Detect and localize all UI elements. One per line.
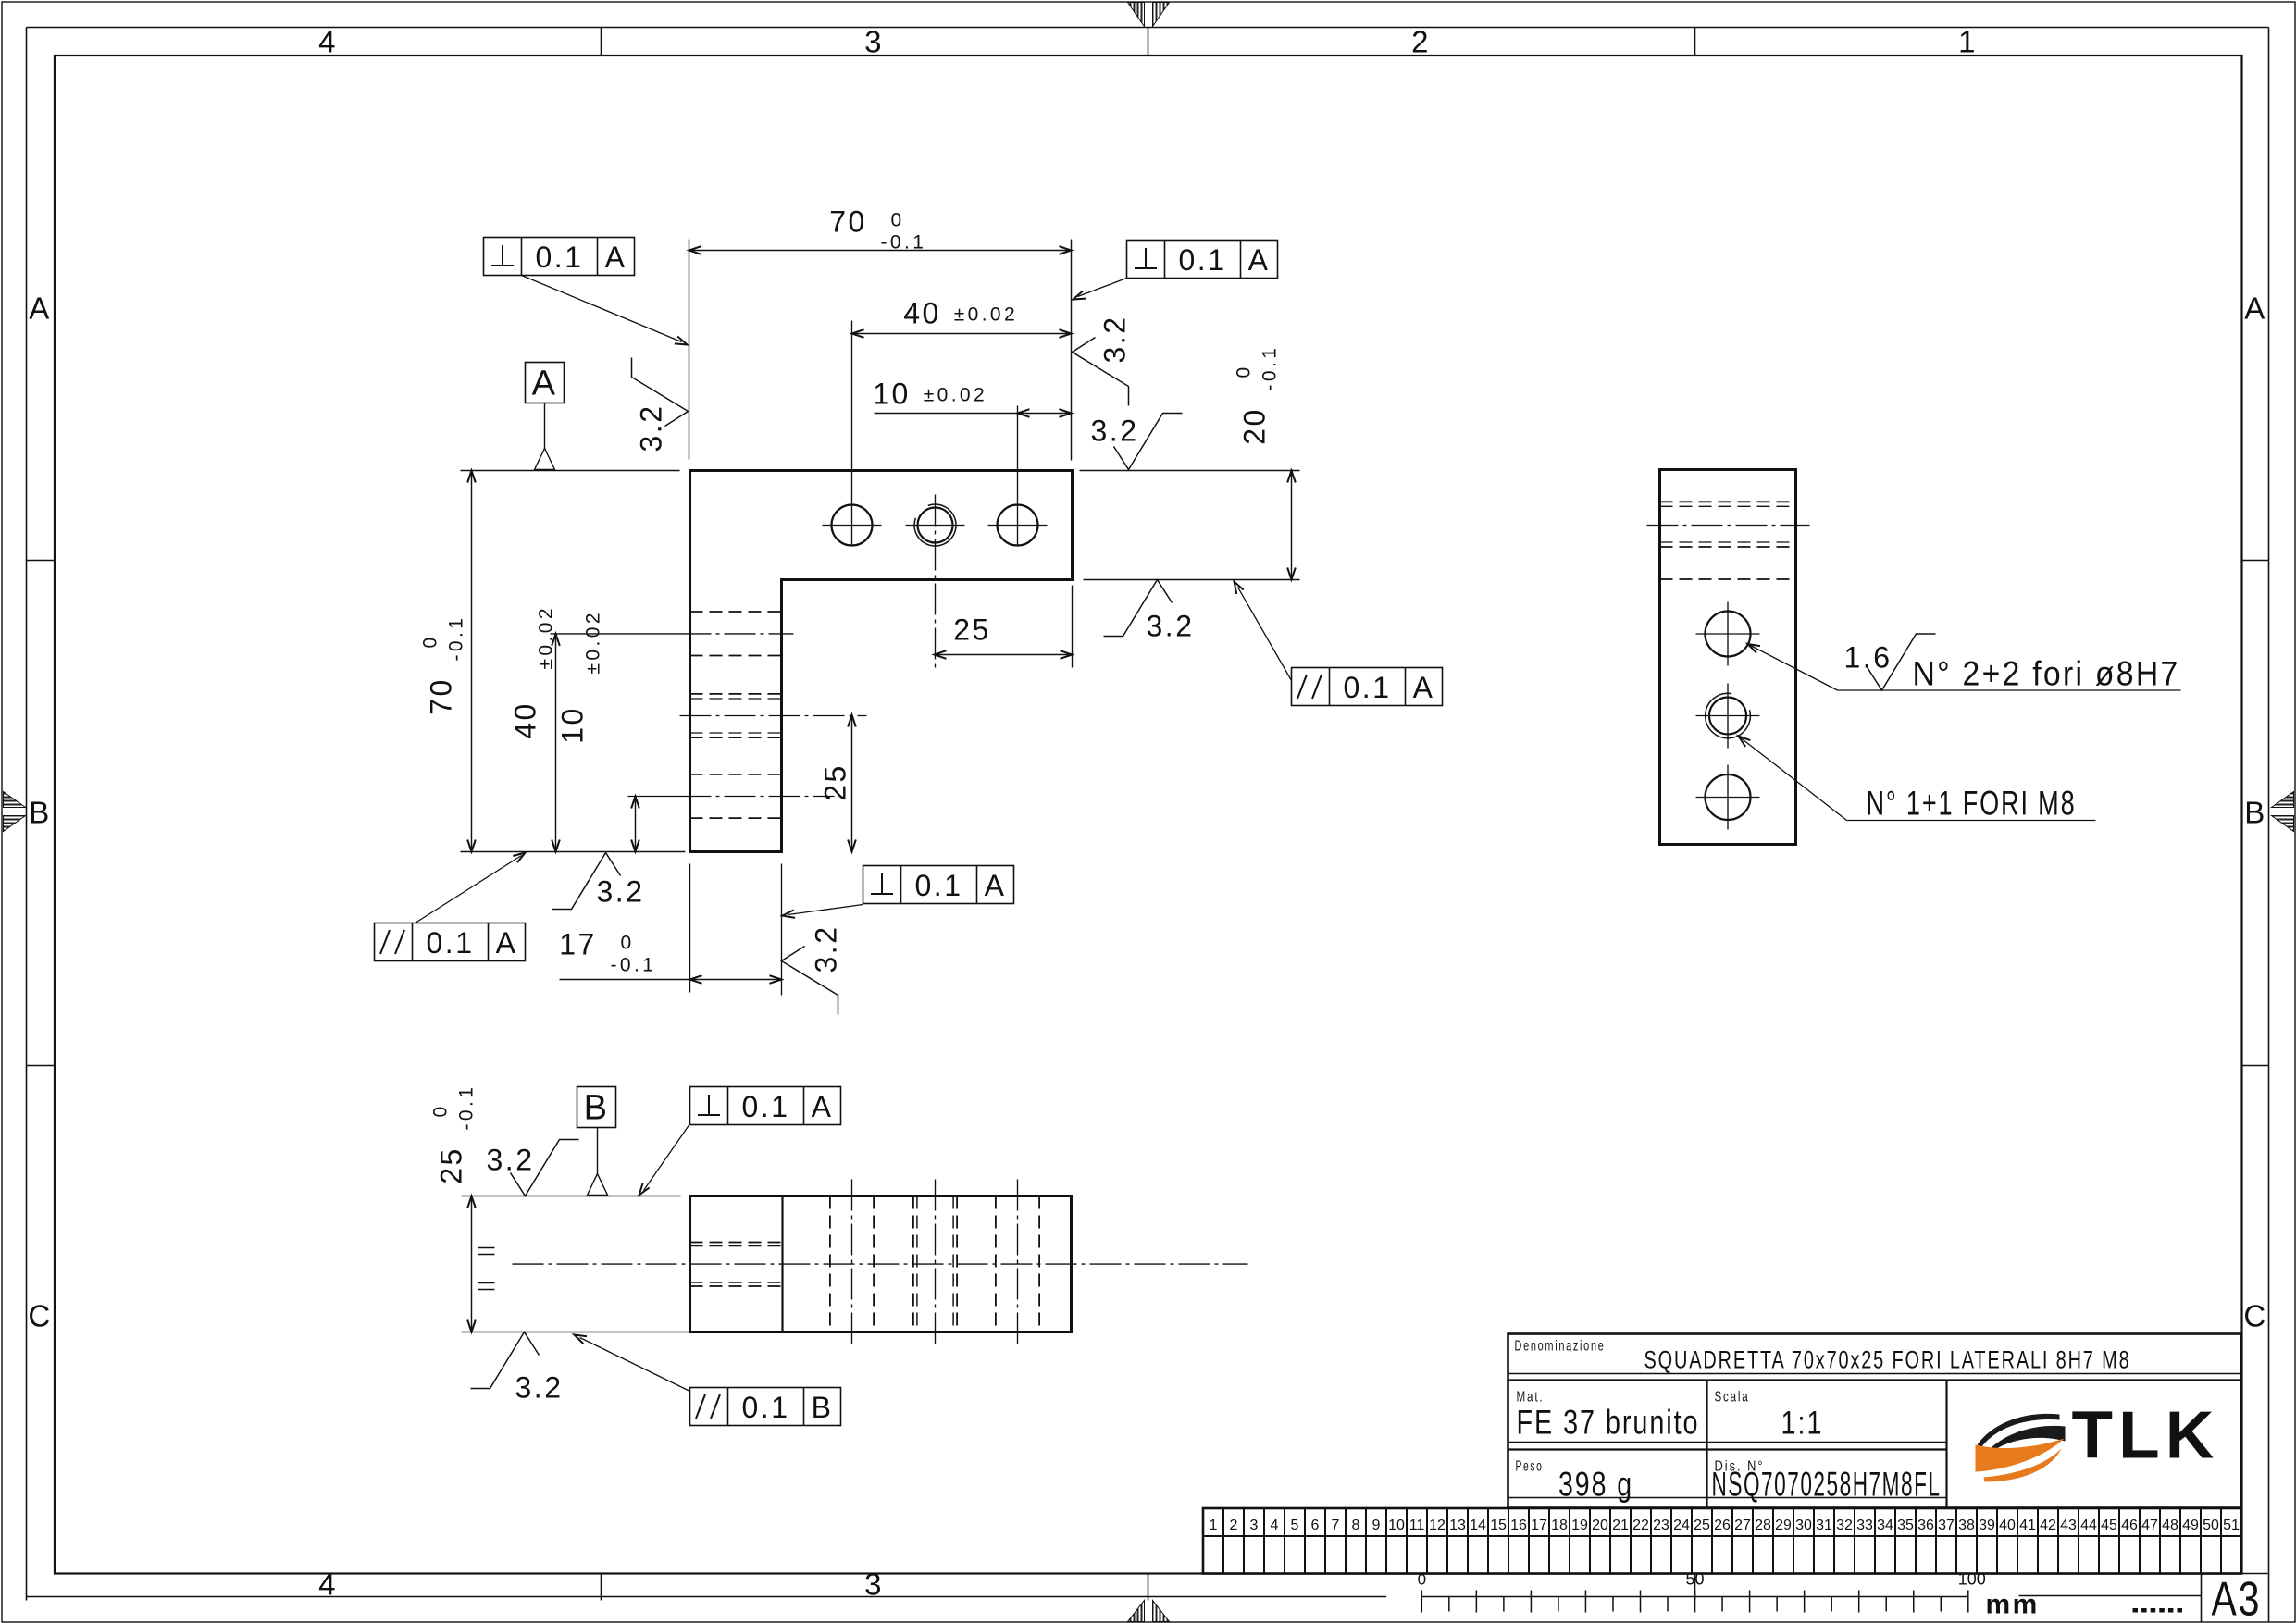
svg-text:A3: A3 <box>2212 1573 2262 1623</box>
svg-text:13: 13 <box>1449 1518 1466 1533</box>
svg-text:3.2: 3.2 <box>597 875 645 909</box>
fcf perpendicularity 0.1 A top-right <box>1074 241 1278 300</box>
svg-text:3: 3 <box>1250 1518 1259 1533</box>
svg-text:40: 40 <box>903 297 941 330</box>
surface 3.2 bottom view top <box>487 1140 579 1196</box>
svg-text:3: 3 <box>864 25 884 59</box>
svg-text:0: 0 <box>430 1103 452 1117</box>
centring mark left <box>4 792 26 832</box>
dim 40 vertical <box>509 605 560 851</box>
svg-text:19: 19 <box>1571 1518 1588 1533</box>
svg-text:0.1: 0.1 <box>1179 243 1227 277</box>
svg-text:0.1: 0.1 <box>915 869 963 902</box>
title block outer <box>1508 1334 2241 1508</box>
svg-text:±0.02: ±0.02 <box>954 304 1018 326</box>
svg-text:0: 0 <box>420 634 441 648</box>
svg-text:A: A <box>605 241 627 274</box>
svg-text:45: 45 <box>2101 1518 2117 1533</box>
ruler <box>1418 1570 1986 1613</box>
svg-text:25: 25 <box>953 613 991 647</box>
svg-text:2: 2 <box>1411 25 1431 59</box>
centre line side-hole A <box>551 633 794 635</box>
svg-text:TLK: TLK <box>2072 1399 2220 1473</box>
svg-text:0.1: 0.1 <box>536 241 584 274</box>
svg-text:25: 25 <box>435 1146 468 1184</box>
bottom view step edge <box>781 1196 783 1332</box>
fcf perpendicularity 0.1 A top-left <box>484 238 688 345</box>
svg-text:21: 21 <box>1612 1518 1629 1533</box>
svg-text:24: 24 <box>1673 1518 1690 1533</box>
svg-text:20: 20 <box>1592 1518 1608 1533</box>
hidden lines side-hole B (M8) in leg <box>690 694 782 737</box>
svg-text:A: A <box>496 926 518 960</box>
svg-text:32: 32 <box>1836 1518 1853 1533</box>
svg-text:22: 22 <box>1632 1518 1649 1533</box>
svg-text:1: 1 <box>1958 25 1978 59</box>
svg-text:20: 20 <box>1238 407 1272 445</box>
centring mark top <box>1128 3 1170 27</box>
datum A flag <box>526 363 565 470</box>
svg-text:-0.1: -0.1 <box>611 955 657 976</box>
dim 70 vertical left <box>420 471 686 852</box>
svg-text:15: 15 <box>1490 1518 1507 1533</box>
dim 70 horizontal top <box>689 205 1072 461</box>
surface 3.2 on right ext line <box>1073 316 1132 406</box>
svg-text:5: 5 <box>1291 1518 1299 1533</box>
zone separators top <box>602 28 1695 56</box>
svg-text:A: A <box>985 869 1007 902</box>
surface 3.2 under bottom ext <box>552 853 645 910</box>
svg-text:17: 17 <box>1531 1518 1547 1533</box>
svg-text:3.2: 3.2 <box>810 925 843 973</box>
svg-text:0.1: 0.1 <box>742 1391 790 1424</box>
fcf perpendicularity 0.1 A bottom <box>783 866 1014 918</box>
fcf perpendicularity 0.1 A bottom view <box>639 1087 841 1196</box>
centring mark bottom <box>1128 1601 1170 1622</box>
dots <box>2133 1608 2183 1613</box>
svg-text:49: 49 <box>2182 1518 2199 1533</box>
svg-text:10: 10 <box>873 378 911 411</box>
svg-text:23: 23 <box>1653 1518 1669 1533</box>
svg-text:N° 1+1 FORI M8: N° 1+1 FORI M8 <box>1867 785 2077 823</box>
dim 10 horizontal <box>873 378 1071 547</box>
svg-text:4: 4 <box>318 25 338 59</box>
svg-text:3.2: 3.2 <box>1147 610 1195 643</box>
surface 3.2 on 17-dim ext line <box>782 925 843 1015</box>
svg-text:A: A <box>532 365 558 403</box>
svg-text:0.1: 0.1 <box>1344 671 1392 704</box>
svg-text:34: 34 <box>1877 1518 1893 1533</box>
leader N 2+2 fori <box>1748 644 2181 693</box>
svg-text:7: 7 <box>1332 1518 1340 1533</box>
svg-text:1.6: 1.6 <box>1844 641 1893 675</box>
svg-text:14: 14 <box>1470 1518 1486 1533</box>
svg-text:SQUADRETTA 70x70x25 FORI LATER: SQUADRETTA 70x70x25 FORI LATERALI 8H7 M8 <box>1644 1346 2131 1374</box>
svg-text:0: 0 <box>891 210 905 231</box>
svg-text:42: 42 <box>2040 1518 2056 1533</box>
svg-text:Denominazione: Denominazione <box>1515 1339 1606 1355</box>
number strip <box>1203 1508 2241 1574</box>
svg-text:6: 6 <box>1311 1518 1320 1533</box>
svg-text:16: 16 <box>1510 1518 1527 1533</box>
side hole 3 <box>1696 765 1760 830</box>
svg-text:12: 12 <box>1429 1518 1446 1533</box>
svg-text:25: 25 <box>1694 1518 1710 1533</box>
svg-text:0: 0 <box>1418 1571 1426 1589</box>
svg-text:B: B <box>2244 796 2267 830</box>
svg-text:-0.1: -0.1 <box>446 615 467 662</box>
hole H2 front (M8) <box>906 504 965 546</box>
svg-text:48: 48 <box>2162 1518 2178 1533</box>
svg-text:3.2: 3.2 <box>635 404 668 452</box>
svg-text:46: 46 <box>2121 1518 2138 1533</box>
centre line side-hole C <box>628 796 835 798</box>
fcf parallelism 0.1 A mid-right <box>1235 582 1443 706</box>
TLK logo <box>1976 1399 2220 1482</box>
svg-text:30: 30 <box>1795 1518 1812 1533</box>
svg-text:8: 8 <box>1352 1518 1360 1533</box>
bottom hidden hole H2 <box>913 1196 957 1332</box>
svg-text:44: 44 <box>2080 1518 2097 1533</box>
svg-text:38: 38 <box>1958 1518 1975 1533</box>
svg-text:B: B <box>812 1391 834 1424</box>
surface 3.2 bottom view bottom <box>471 1332 564 1405</box>
zone numbers top <box>318 25 1978 59</box>
svg-text:3: 3 <box>864 1567 884 1602</box>
bottom long centre line <box>513 1263 1248 1265</box>
side hidden step edge <box>1660 578 1796 580</box>
hidden lines side-hole C in leg <box>690 774 782 818</box>
svg-text:50: 50 <box>2203 1518 2219 1533</box>
side centre line top holes <box>1647 525 1810 527</box>
svg-text:-0.1: -0.1 <box>881 232 927 254</box>
svg-text:10: 10 <box>1388 1518 1405 1533</box>
svg-text:100: 100 <box>1958 1570 1986 1589</box>
side hidden lines top holes <box>1660 502 1796 547</box>
dim 25 under top arm <box>935 495 1073 668</box>
svg-text:31: 31 <box>1816 1518 1832 1533</box>
dim 10 vertical <box>556 610 639 851</box>
svg-text:0.1: 0.1 <box>427 926 475 960</box>
svg-text:C: C <box>2243 1299 2267 1333</box>
svg-text:27: 27 <box>1734 1518 1751 1533</box>
zone letters right <box>2243 291 2267 1333</box>
bottom hidden hole H1 <box>830 1196 874 1332</box>
dim 17 bottom <box>559 864 781 996</box>
leader N 1+1 FORI M8 <box>1739 737 2096 823</box>
bottom hidden side holes <box>690 1243 783 1287</box>
side hole 1 <box>1696 602 1760 666</box>
fcf parallelism 0.1 A bottom-left <box>375 853 526 961</box>
svg-text:4: 4 <box>318 1567 338 1602</box>
svg-text:A: A <box>1413 671 1435 704</box>
svg-text:10: 10 <box>556 706 590 744</box>
svg-text:35: 35 <box>1897 1518 1914 1533</box>
zone separators right <box>2242 561 2269 1066</box>
svg-text:±0.02: ±0.02 <box>583 610 604 674</box>
hole H1 front <box>823 505 882 546</box>
svg-text:Scala: Scala <box>1715 1390 1750 1406</box>
symmetry marks <box>478 1248 495 1290</box>
svg-text:41: 41 <box>2019 1518 2036 1533</box>
zone letters left <box>28 291 52 1333</box>
svg-text:43: 43 <box>2060 1518 2077 1533</box>
svg-text:NSQ7070258H7M8FL: NSQ7070258H7M8FL <box>1712 1466 1942 1504</box>
svg-text:36: 36 <box>1917 1518 1934 1533</box>
hidden lines side-hole A in leg <box>690 612 782 656</box>
svg-text:-0.1: -0.1 <box>1260 345 1281 391</box>
svg-text:33: 33 <box>1856 1518 1873 1533</box>
svg-text:39: 39 <box>1979 1518 1995 1533</box>
svg-text:25: 25 <box>819 763 852 801</box>
svg-text:28: 28 <box>1755 1518 1771 1533</box>
dim 25 vertical in view <box>819 715 856 852</box>
svg-text:B: B <box>584 1089 610 1128</box>
svg-text:70: 70 <box>829 205 867 239</box>
A3 corner box <box>2202 1574 2268 1622</box>
svg-text:26: 26 <box>1714 1518 1731 1533</box>
svg-text:Peso: Peso <box>1516 1459 1544 1475</box>
surface 3.2 on left ext line <box>632 358 689 452</box>
svg-text:37: 37 <box>1938 1518 1955 1533</box>
svg-text:0: 0 <box>1234 364 1255 378</box>
svg-text:3.2: 3.2 <box>1091 415 1139 448</box>
surface 3.2 on top-right ext <box>1091 414 1183 470</box>
bottom view outline <box>690 1196 1072 1332</box>
centring mark right <box>2272 792 2294 832</box>
title block texts <box>1515 1339 2131 1504</box>
centre line side-hole B <box>680 715 867 717</box>
svg-text:2: 2 <box>1230 1518 1238 1533</box>
svg-text:50: 50 <box>1686 1570 1705 1589</box>
svg-text:mm: mm <box>1986 1590 2040 1620</box>
svg-text:1:1: 1:1 <box>1781 1406 1824 1442</box>
svg-text:398 g: 398 g <box>1558 1466 1633 1504</box>
svg-text:47: 47 <box>2141 1518 2158 1533</box>
svg-text:N° 2+2 fori ø8H7: N° 2+2 fori ø8H7 <box>1913 655 2180 693</box>
svg-text:1: 1 <box>1210 1518 1218 1533</box>
svg-text:40: 40 <box>1999 1518 2016 1533</box>
svg-text:3.2: 3.2 <box>487 1144 535 1177</box>
surface 3.2 under step ext <box>1104 580 1195 643</box>
svg-text:0.1: 0.1 <box>742 1090 790 1123</box>
bottom centre lines vertical <box>852 1180 1018 1349</box>
front view outline <box>690 471 1073 852</box>
svg-text:A: A <box>29 291 52 326</box>
svg-text:FE 37 brunito: FE 37 brunito <box>1517 1404 1700 1442</box>
hole H3 front <box>988 505 1048 546</box>
svg-text:B: B <box>29 796 52 830</box>
dim 20 vertical right <box>1080 345 1300 580</box>
datum B flag <box>577 1087 616 1196</box>
svg-text:17: 17 <box>559 928 597 961</box>
svg-text:0: 0 <box>621 933 635 954</box>
dim 40 horizontal <box>852 297 1072 547</box>
svg-text:29: 29 <box>1775 1518 1792 1533</box>
svg-text:70: 70 <box>425 677 458 715</box>
bottom hidden hole H3 <box>996 1196 1039 1332</box>
svg-text:11: 11 <box>1409 1518 1425 1533</box>
fcf parallelism 0.1 B bottom view <box>575 1335 841 1426</box>
svg-text:51: 51 <box>2223 1518 2240 1533</box>
svg-text:3.2: 3.2 <box>1098 316 1132 364</box>
side view outline <box>1660 470 1796 845</box>
svg-text:±0.02: ±0.02 <box>924 385 987 406</box>
svg-text:4: 4 <box>1271 1518 1279 1533</box>
zone separators bottom <box>602 1574 1695 1601</box>
zone numbers bottom <box>318 1567 884 1602</box>
dim 25 bottom view <box>430 1084 689 1332</box>
svg-text:9: 9 <box>1372 1518 1381 1533</box>
title block lines <box>1508 1374 2241 1508</box>
svg-text:3.2: 3.2 <box>515 1371 564 1405</box>
side hole 2 (M8) <box>1696 684 1760 749</box>
surface 1.6 on leader <box>1844 634 1936 690</box>
svg-text:±0.02: ±0.02 <box>536 605 557 669</box>
svg-text:-0.1: -0.1 <box>456 1084 478 1131</box>
svg-text:C: C <box>28 1299 52 1333</box>
svg-text:A: A <box>1248 243 1271 277</box>
svg-text:40: 40 <box>509 701 542 739</box>
svg-text:18: 18 <box>1551 1518 1568 1533</box>
zone separators left <box>27 561 56 1066</box>
svg-text:A: A <box>812 1090 834 1123</box>
svg-text:A: A <box>2244 291 2267 326</box>
